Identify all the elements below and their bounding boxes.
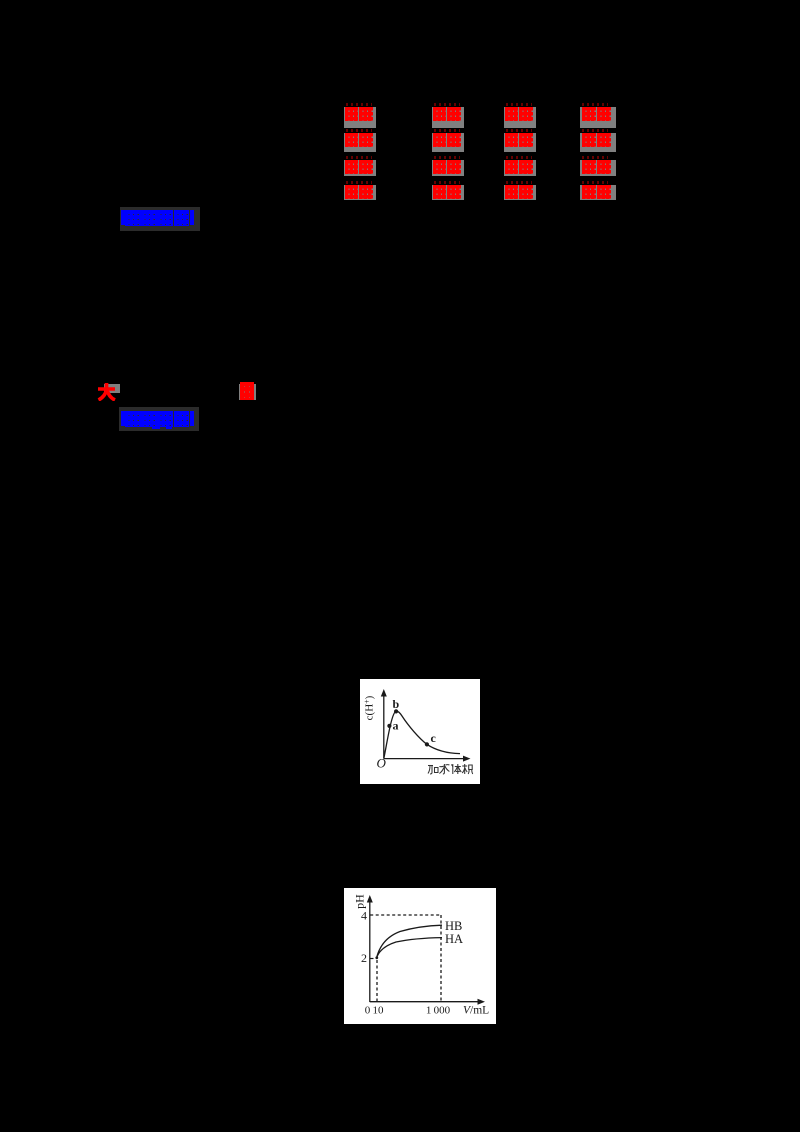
svg-text:b: b: [393, 697, 400, 711]
svg-text:c: c: [431, 731, 437, 745]
svg-text:10: 10: [373, 1005, 385, 1017]
svg-text:4: 4: [361, 908, 367, 922]
svg-text:HA: HA: [445, 932, 463, 946]
svg-text:0: 0: [365, 1005, 371, 1017]
svg-text:c(H+): c(H+): [363, 695, 376, 720]
svg-text:a: a: [393, 719, 399, 733]
svg-text:O: O: [377, 756, 387, 771]
svg-text:2: 2: [361, 951, 367, 965]
svg-text:1 000: 1 000: [426, 1005, 451, 1017]
svg-text:pH: pH: [353, 894, 367, 909]
svg-text:V/mL: V/mL: [463, 1005, 489, 1017]
svg-text:HB: HB: [445, 919, 462, 933]
